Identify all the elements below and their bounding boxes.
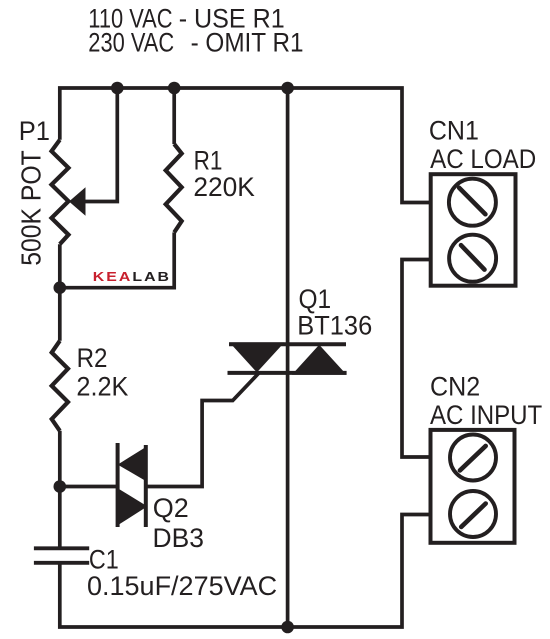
- wire: R2 bottom to node: [58, 431, 62, 487]
- label CN2: [430, 371, 543, 431]
- capacitor C1 bottom plate: [34, 561, 89, 565]
- triac Q1 top bar: [229, 342, 346, 346]
- svg-text:220K: 220K: [193, 172, 255, 202]
- svg-text:0.15uF/275VAC: 0.15uF/275VAC: [87, 571, 277, 601]
- connector CN2 body: [431, 430, 515, 543]
- label P1: [19, 115, 50, 146]
- svg-text:AC INPUT: AC INPUT: [430, 401, 543, 431]
- triac Q1 right triangle: [292, 345, 347, 375]
- node: junction R1 top: [168, 82, 181, 95]
- connector CN2 screw 1: [450, 435, 496, 481]
- wire: gate from diac right up to triac gate: [146, 373, 259, 487]
- svg-text:R2: R2: [77, 344, 108, 374]
- connector CN1 body: [431, 174, 516, 286]
- triac Q1 bottom bar: [228, 371, 347, 375]
- svg-text:Q2: Q2: [153, 493, 189, 523]
- label Q2: [153, 493, 204, 553]
- connector CN2 screw 2: [450, 491, 496, 537]
- wire: main vertical through triac: [286, 88, 290, 627]
- potentiometer P1 body zigzag: [52, 140, 69, 244]
- resistor R1 top lead: [172, 88, 176, 144]
- node: junction P1/R1 bottom: [54, 281, 67, 294]
- wire: node to diac left: [60, 485, 118, 489]
- wire: top rail from P1 top across to CN1 pin1: [60, 88, 431, 203]
- wire: P1 bottom through node to R2 top: [58, 244, 62, 341]
- svg-text:KEALAB: KEALAB: [93, 271, 171, 285]
- svg-text:500K POT: 500K POT: [15, 150, 47, 265]
- connector CN1 screw 2 slot: [461, 245, 485, 269]
- wire: C1 bottom, bottom rail, up to CN2 pin2: [60, 515, 431, 628]
- resistor R1 zigzag: [166, 144, 182, 232]
- logo KEALAB: [93, 271, 171, 285]
- diac Q2 right bar: [144, 445, 148, 527]
- svg-text:230 VAC: 230 VAC: [88, 28, 174, 58]
- wire: R1 bottom lead down and left to node: [60, 232, 174, 287]
- label CN1: [429, 115, 536, 175]
- wire: CN1 pin2 down to CN2 pin1: [402, 260, 431, 458]
- note: voltage selection text: [88, 3, 303, 58]
- node: junction R2/C1/diac: [54, 480, 67, 493]
- diac Q2 left bar: [116, 443, 120, 527]
- node: junction wiper feed: [111, 82, 124, 95]
- node: junction triac bottom: [281, 621, 294, 634]
- label R1: [193, 145, 255, 202]
- potentiometer P1 wiper arrow: [69, 187, 86, 215]
- svg-text:DB3: DB3: [153, 523, 204, 553]
- resistor R2 zigzag: [52, 341, 68, 431]
- diac Q2 upper triangle: [118, 446, 148, 482]
- label Q1: [297, 285, 372, 341]
- svg-text:- OMIT R1: - OMIT R1: [191, 28, 304, 57]
- svg-text:P1: P1: [19, 115, 50, 146]
- svg-text:2.2K: 2.2K: [76, 371, 129, 402]
- connector CN1 screw 2: [449, 235, 496, 282]
- svg-text:CN1: CN1: [429, 115, 479, 146]
- svg-text:CN2: CN2: [430, 371, 480, 402]
- connector CN2 screw 1 slot: [460, 446, 486, 471]
- connector CN1 screw 1 slot: [459, 188, 485, 214]
- capacitor C1 top lead: [58, 487, 62, 548]
- connector CN1 screw 1: [449, 179, 496, 226]
- connector CN2 screw 2 slot: [461, 504, 486, 527]
- triac Q1 left triangle: [230, 342, 285, 372]
- diac Q2 lower triangle: [118, 488, 148, 525]
- label C1: [87, 545, 277, 601]
- label 500K POT (rotated): [15, 150, 47, 265]
- svg-text:BT136: BT136: [297, 310, 372, 341]
- svg-text:AC LOAD: AC LOAD: [430, 145, 536, 174]
- capacitor C1 top plate: [34, 546, 89, 550]
- label R2: [76, 344, 129, 402]
- node: junction triac top: [281, 82, 294, 95]
- potentiometer P1 wiper wire: [84, 88, 117, 202]
